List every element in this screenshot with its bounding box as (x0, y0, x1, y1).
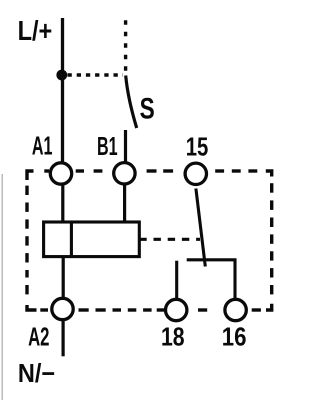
svg-text:16: 16 (222, 324, 247, 352)
top dashes (44, 169, 49, 172)
svg-text:A1: A1 (32, 132, 53, 160)
bottom-right corner (266, 304, 272, 310)
wire B1 to coil (123, 184, 126, 222)
wire coil to A2 (62, 256, 65, 299)
top-right corner (266, 171, 272, 177)
right edge dashes (270, 183, 273, 193)
scan edge artifact (1, 174, 3, 400)
terminal 15 (185, 134, 208, 185)
terminal B1 (97, 133, 135, 184)
relay coil (44, 222, 140, 257)
bottom dashes (252, 308, 261, 311)
left edge dashes (25, 285, 28, 294)
terminal A2 (28, 298, 73, 351)
contact bar to 16 (187, 260, 235, 299)
svg-text:S: S (140, 93, 155, 126)
svg-text:N/−: N/− (18, 360, 55, 388)
wire A1 to coil (61, 184, 64, 222)
wire switch to B1 (124, 130, 127, 163)
terminal 18 (161, 299, 187, 351)
terminal A1 (32, 132, 72, 184)
top-left corner (27, 171, 34, 180)
contact blade 15 (196, 189, 205, 267)
wire dotted link junction to switch (68, 73, 124, 76)
wire L/+ supply vertical (61, 18, 64, 163)
wire dotted vertical to switch (124, 20, 127, 71)
svg-text:B1: B1 (97, 133, 118, 161)
contact stub 18 (175, 261, 178, 298)
junction dot (56, 70, 67, 81)
wire A2 down (61, 320, 64, 356)
bottom-left corner (27, 305, 37, 310)
svg-text:15: 15 (186, 134, 209, 162)
svg-text:18: 18 (161, 324, 185, 352)
svg-text:L/+: L/+ (18, 15, 53, 46)
relay outline dashed box (27, 171, 272, 310)
svg-text:A2: A2 (28, 323, 49, 351)
terminal 16 (222, 299, 247, 351)
switch S (126, 76, 155, 129)
linkage coil to contact (dashed) (139, 238, 200, 241)
